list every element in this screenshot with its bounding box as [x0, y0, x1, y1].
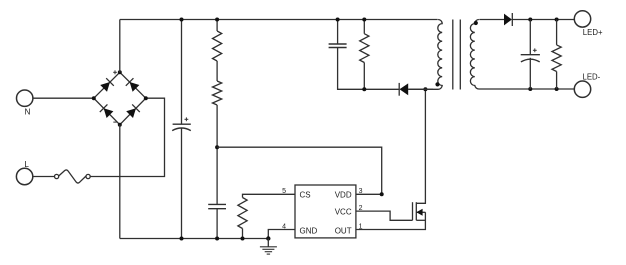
resistor R1 (startup upper) — [216, 20, 218, 32]
node AC-N (bridge left corner) — [92, 96, 96, 100]
wire GND pin — [268, 230, 295, 239]
capacitor C1 (bulk electrolytic) — [181, 20, 183, 125]
terminal LED+ — [574, 11, 590, 27]
diode D1 (clamp) — [398, 83, 400, 96]
wire bridge bottom to rail — [119, 125, 121, 239]
node AC-L (bridge right corner) — [144, 96, 148, 100]
junction C2 / bottom rail — [215, 237, 219, 241]
wire L to fuse — [33, 176, 55, 178]
top rail wire — [120, 19, 438, 21]
wire N to bridge left — [33, 97, 94, 99]
svg-text:N: N — [25, 107, 31, 117]
fuse F1 — [55, 174, 59, 178]
bridge rectifier diamond — [94, 72, 146, 124]
wire CS pin — [243, 194, 296, 197]
svg-text:CS: CS — [300, 191, 311, 200]
primary polarity dot — [435, 82, 439, 86]
terminal L — [16, 168, 32, 184]
wire VDD link — [217, 147, 382, 194]
junction GND / bottom rail — [266, 236, 270, 240]
junction R1 / top rail — [215, 18, 219, 22]
bridge diode D_lb — [100, 104, 114, 118]
node VDD (R2/C2/VDD wire) — [215, 145, 219, 149]
transformer T1 primary — [408, 20, 442, 90]
junction R4 / top rail — [362, 18, 366, 22]
svg-text:GND: GND — [300, 227, 318, 236]
svg-text:VCC: VCC — [335, 207, 352, 216]
junction C3 / LED+ wire — [528, 18, 532, 22]
junction C4 / top rail — [336, 18, 340, 22]
secondary polarity dot — [474, 21, 478, 25]
transistor Q1 (MOSFET) — [412, 202, 414, 220]
terminal N — [17, 90, 33, 106]
transformer T1 secondary — [470, 20, 574, 90]
bridge diode D_lt — [100, 78, 114, 92]
svg-text:L: L — [24, 160, 29, 169]
wire VCC pin to gate — [356, 211, 413, 220]
bridge minus mark — [113, 121, 117, 123]
diode D2 (output rectifier) — [504, 14, 512, 26]
junction C1 / bottom rail — [180, 237, 184, 241]
resistor R2 (startup lower) — [216, 61, 218, 81]
junction R5 / LED- wire — [555, 87, 559, 91]
junction C1 / top rail — [180, 18, 184, 22]
capacitor C2 (VDD) — [208, 203, 226, 205]
svg-text:OUT: OUT — [335, 227, 352, 236]
junction pin 3 VDD — [380, 192, 384, 196]
svg-text:VDD: VDD — [335, 191, 352, 200]
resistor R5 (output) — [556, 20, 558, 45]
capacitor C3 (output electrolytic) — [529, 20, 531, 55]
node drain / primary bottom — [423, 87, 427, 91]
bridge diode D_rb — [126, 104, 140, 118]
node DC+ (bridge top corner) — [118, 70, 122, 74]
IC U1 — [295, 185, 356, 238]
wire bridge top to rail — [119, 20, 121, 73]
capacitor C4 (snubber) — [337, 20, 339, 45]
svg-text:LED+: LED+ — [583, 28, 603, 37]
wire fuse to corner — [90, 98, 164, 176]
bottom rail wire — [120, 238, 268, 240]
resistor R3 (CS sense) — [238, 198, 247, 229]
wire secondary top to diode — [479, 19, 504, 21]
ground — [267, 239, 269, 247]
node DC- (bridge bottom corner) — [118, 123, 122, 127]
svg-text:3: 3 — [359, 188, 363, 195]
wire OUT pin to source — [356, 212, 426, 229]
svg-text:LED-: LED- — [583, 73, 601, 82]
junction R5 / LED+ wire — [555, 18, 559, 22]
junction C3 / LED- wire — [528, 87, 532, 91]
resistor R4 (snubber) — [363, 20, 365, 34]
bridge diode D_rt — [126, 78, 140, 92]
bridge plus mark — [113, 70, 117, 74]
junction R4 / clamp wire — [362, 87, 366, 91]
terminal LED- — [574, 81, 590, 97]
transformer core — [452, 20, 454, 90]
junction R3 / bottom rail — [241, 237, 245, 241]
